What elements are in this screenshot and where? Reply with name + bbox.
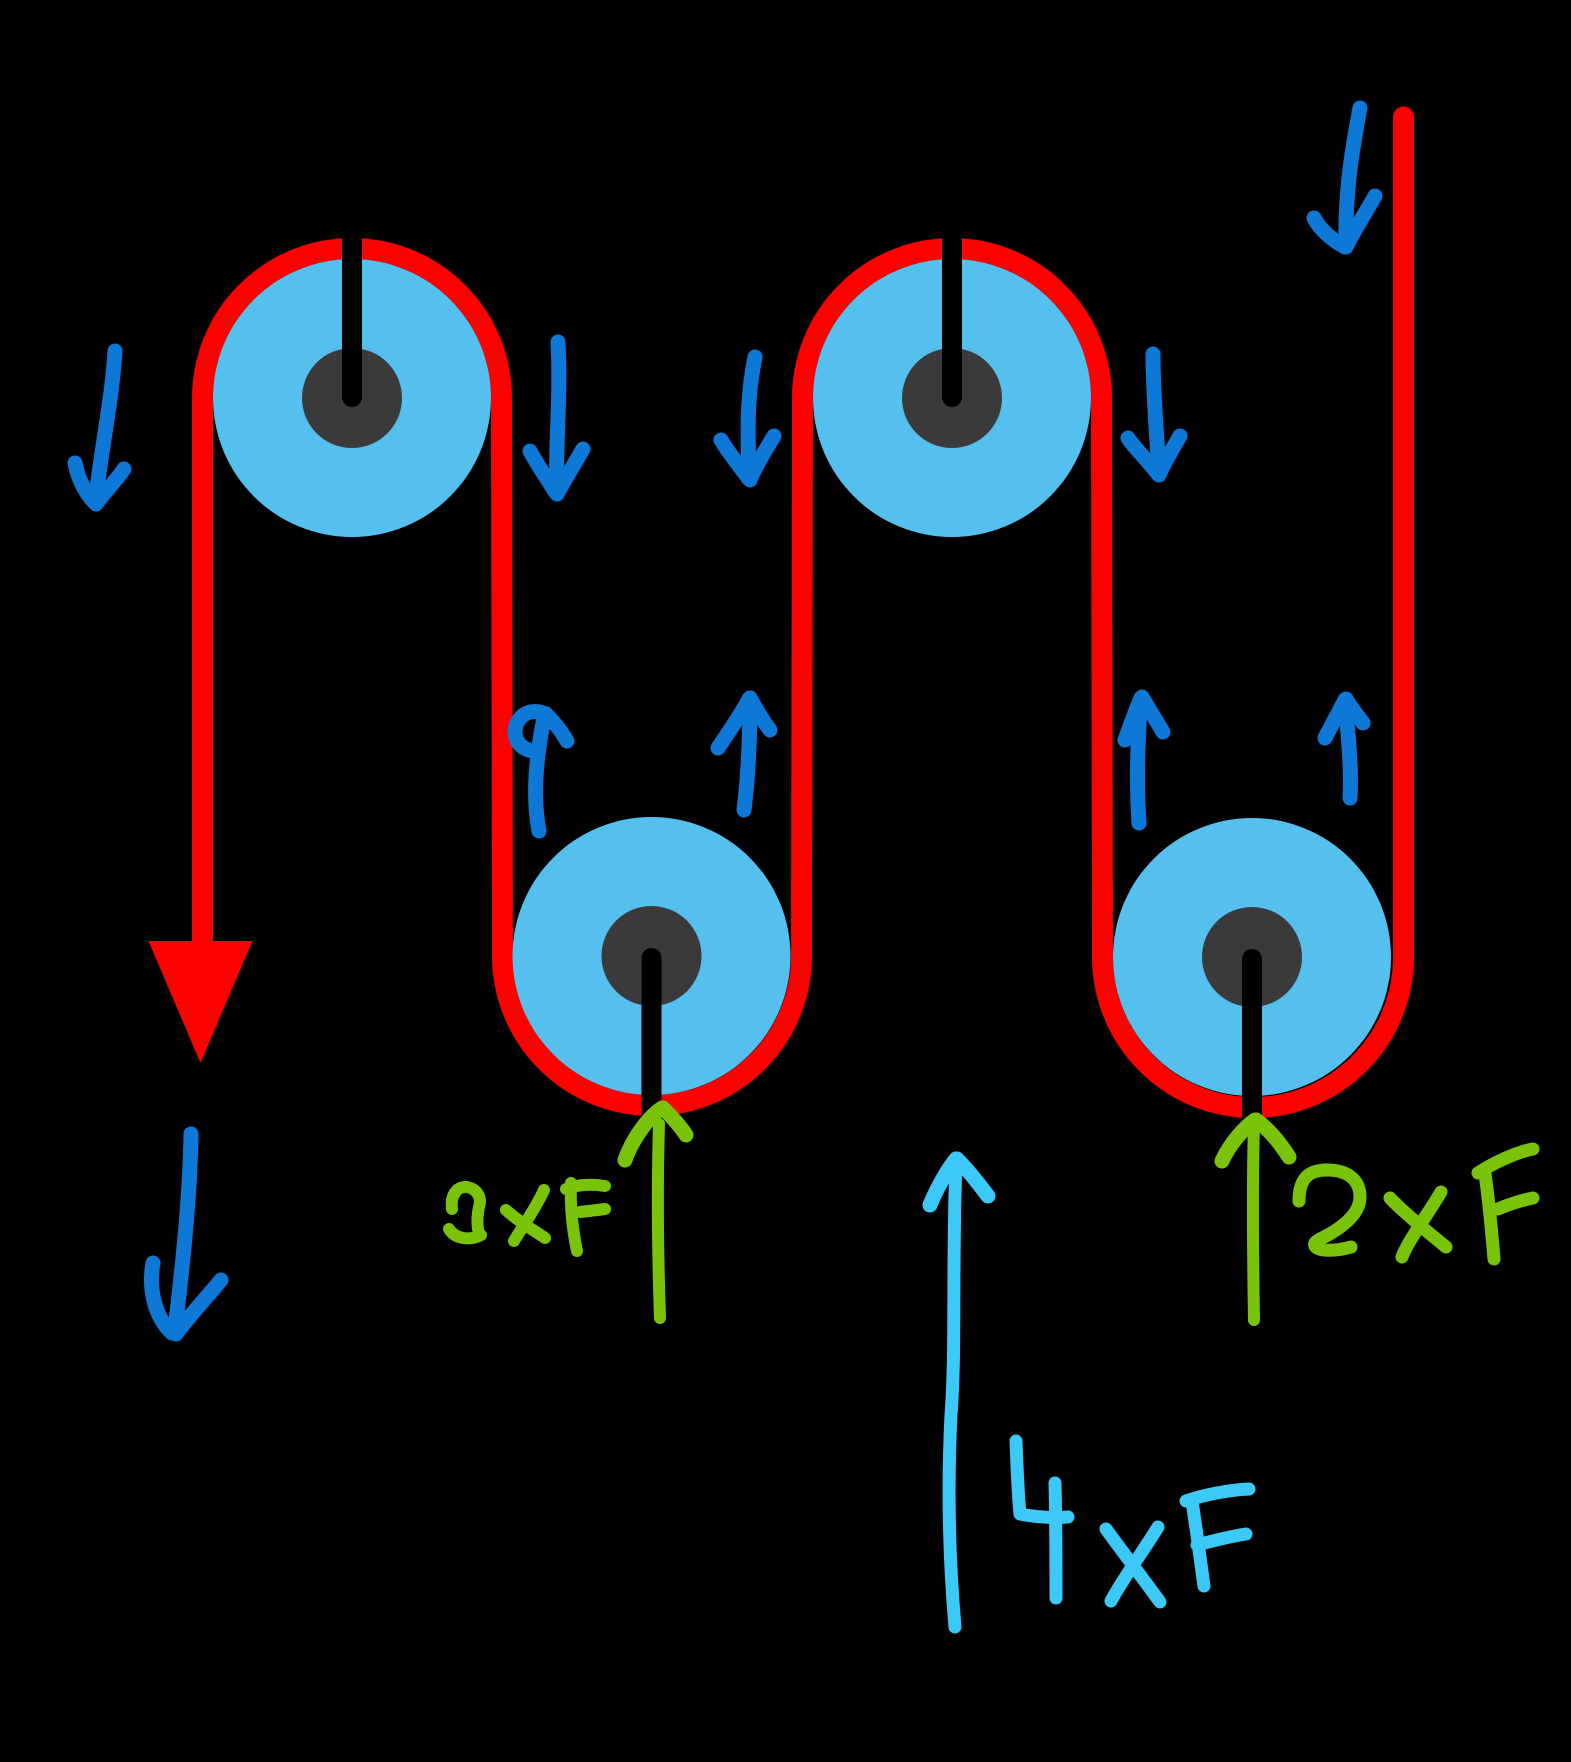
blue down arrow A2 (right of P1) (557, 342, 559, 490)
pulley P2 hub (902, 348, 1002, 448)
wire rope (red) over P1, under P3, over P2, under P4 (203, 117, 1404, 1108)
blue down arrow A1 (far left) (96, 351, 115, 498)
pulley P2 wheel (813, 259, 1091, 537)
pulley P3 wheel (513, 817, 791, 1095)
green arrows group (625, 1108, 1289, 1320)
pulley P3 hub (602, 906, 702, 1006)
pulley P4 wheel (1113, 818, 1391, 1096)
red effort arrowhead (bottom left) (149, 941, 253, 1063)
green force arrow G1 (under P3) (658, 1124, 660, 1318)
cyan label "4xF" (1016, 1441, 1249, 1602)
pulley P1 hub (302, 348, 402, 448)
blue up arrow A7 (above P3 right) (744, 698, 750, 810)
blue down arrow A10 (below red effort arrow) (175, 1134, 191, 1330)
pulley P1 wheel (213, 259, 491, 537)
pulley P4 axle (1242, 959, 1262, 1118)
blue up arrow A9 (above P4 right) (1345, 700, 1350, 798)
green label "2xF" (small, left) (449, 1183, 605, 1251)
pulley P1 axle (342, 226, 362, 397)
blue arrows group (75, 108, 1375, 1334)
blue down arrow A4 (right of P2) (1153, 354, 1159, 472)
pulley P3 axle (642, 958, 662, 1117)
cyan velocity arrow (4xF) (930, 1159, 988, 1627)
pulley P2 axle (942, 226, 962, 397)
blue down arrow A3 (left of P2) (748, 357, 755, 477)
green force arrow G2 (under P4) (1253, 1124, 1254, 1320)
blue up arrow A8 (above P4 left) (1138, 698, 1141, 823)
blue down arrow A5 (top right) (1346, 108, 1360, 244)
blue up arrow A6 (curled, above P3 left) (536, 718, 544, 831)
pulley P4 hub (1202, 907, 1302, 1007)
green label "2xF" (large, right) (1299, 1149, 1533, 1259)
